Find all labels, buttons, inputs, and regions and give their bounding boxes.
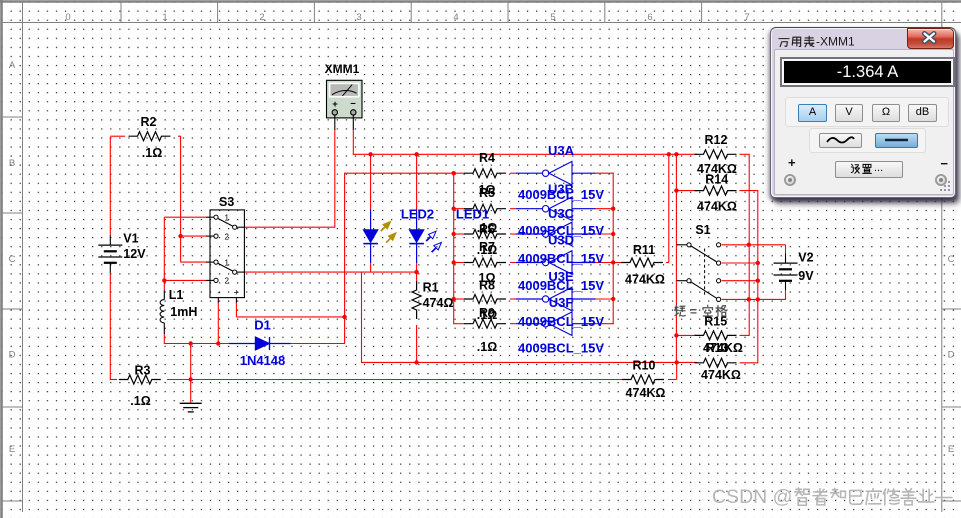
svg-text:7: 7 bbox=[744, 12, 749, 23]
svg-text:-: - bbox=[217, 287, 220, 297]
svg-text:.1Ω: .1Ω bbox=[130, 394, 150, 408]
svg-text:R2: R2 bbox=[141, 115, 157, 129]
svg-text:2: 2 bbox=[225, 232, 230, 241]
svg-text:R10: R10 bbox=[633, 358, 656, 372]
svg-text:+: + bbox=[332, 99, 338, 110]
svg-text:U3A: U3A bbox=[548, 143, 575, 158]
svg-text:474Ω: 474Ω bbox=[423, 296, 454, 310]
svg-text:+: + bbox=[234, 287, 239, 297]
svg-text:4009BCL_15V: 4009BCL_15V bbox=[518, 251, 604, 266]
svg-text:R6: R6 bbox=[479, 223, 495, 237]
svg-text:R7: R7 bbox=[479, 240, 495, 254]
svg-text:2: 2 bbox=[259, 12, 264, 23]
svg-text:R4: R4 bbox=[479, 151, 495, 165]
svg-text:1: 1 bbox=[225, 213, 230, 222]
svg-text:U3C: U3C bbox=[548, 206, 575, 221]
svg-text:−: − bbox=[350, 99, 356, 110]
svg-text:C: C bbox=[9, 254, 16, 265]
svg-text:3: 3 bbox=[356, 12, 361, 23]
svg-text:474KΩ: 474KΩ bbox=[701, 368, 741, 382]
svg-text:V1: V1 bbox=[123, 232, 138, 246]
svg-text:1mH: 1mH bbox=[170, 305, 197, 319]
svg-text:12V: 12V bbox=[123, 247, 146, 261]
svg-text:4: 4 bbox=[453, 12, 458, 23]
svg-text:...: ... bbox=[874, 162, 883, 174]
svg-text:LED1: LED1 bbox=[456, 206, 489, 221]
svg-text:4009BCL_15V: 4009BCL_15V bbox=[518, 341, 604, 356]
svg-text:U3F: U3F bbox=[549, 295, 574, 310]
svg-text:D: D bbox=[948, 350, 955, 361]
svg-text:.1Ω: .1Ω bbox=[142, 146, 162, 160]
svg-text:R3: R3 bbox=[135, 363, 151, 377]
svg-text:R13: R13 bbox=[706, 341, 729, 355]
svg-text:S1: S1 bbox=[695, 223, 710, 237]
svg-text:B: B bbox=[9, 158, 15, 169]
svg-text:D: D bbox=[9, 350, 16, 361]
svg-text:.1Ω: .1Ω bbox=[477, 340, 497, 354]
svg-text:1N4148: 1N4148 bbox=[240, 353, 286, 368]
svg-text:L1: L1 bbox=[169, 288, 184, 302]
svg-text:D1: D1 bbox=[254, 317, 271, 332]
svg-text:474KΩ: 474KΩ bbox=[697, 199, 737, 213]
svg-text:R5: R5 bbox=[479, 186, 495, 200]
svg-text:R12: R12 bbox=[705, 133, 728, 147]
svg-text:LED2: LED2 bbox=[401, 206, 434, 221]
svg-text:0: 0 bbox=[65, 12, 70, 23]
svg-text:4009BCL_15V: 4009BCL_15V bbox=[518, 314, 604, 329]
svg-text:1: 1 bbox=[162, 12, 167, 23]
svg-text:R14: R14 bbox=[705, 172, 728, 186]
svg-text:E: E bbox=[948, 444, 954, 455]
svg-text:2: 2 bbox=[225, 277, 230, 286]
svg-text:R8: R8 bbox=[479, 278, 495, 292]
svg-text:A: A bbox=[9, 60, 16, 71]
svg-text:-XMM1: -XMM1 bbox=[816, 35, 855, 49]
svg-text:XMM1: XMM1 bbox=[325, 62, 360, 76]
svg-text:R1: R1 bbox=[423, 281, 439, 295]
svg-text:1: 1 bbox=[225, 258, 230, 267]
svg-text:S3: S3 bbox=[219, 195, 234, 209]
svg-text:4009BCL_15V: 4009BCL_15V bbox=[518, 187, 604, 202]
svg-text:=: = bbox=[690, 305, 697, 319]
svg-text:5: 5 bbox=[550, 12, 555, 23]
svg-text:CSDN @: CSDN @ bbox=[712, 486, 792, 508]
svg-text:4009BCL_15V: 4009BCL_15V bbox=[518, 278, 604, 293]
svg-text:474KΩ: 474KΩ bbox=[625, 273, 665, 287]
svg-text:E: E bbox=[9, 444, 15, 455]
svg-text:9V: 9V bbox=[798, 269, 814, 283]
svg-text:R11: R11 bbox=[633, 243, 655, 257]
svg-text:V2: V2 bbox=[798, 251, 813, 265]
svg-text:4009BCL_15V: 4009BCL_15V bbox=[518, 223, 604, 238]
svg-text:C: C bbox=[948, 254, 955, 265]
svg-text:474KΩ: 474KΩ bbox=[626, 386, 666, 400]
svg-text:6: 6 bbox=[647, 12, 652, 23]
svg-text:R9: R9 bbox=[479, 306, 495, 320]
